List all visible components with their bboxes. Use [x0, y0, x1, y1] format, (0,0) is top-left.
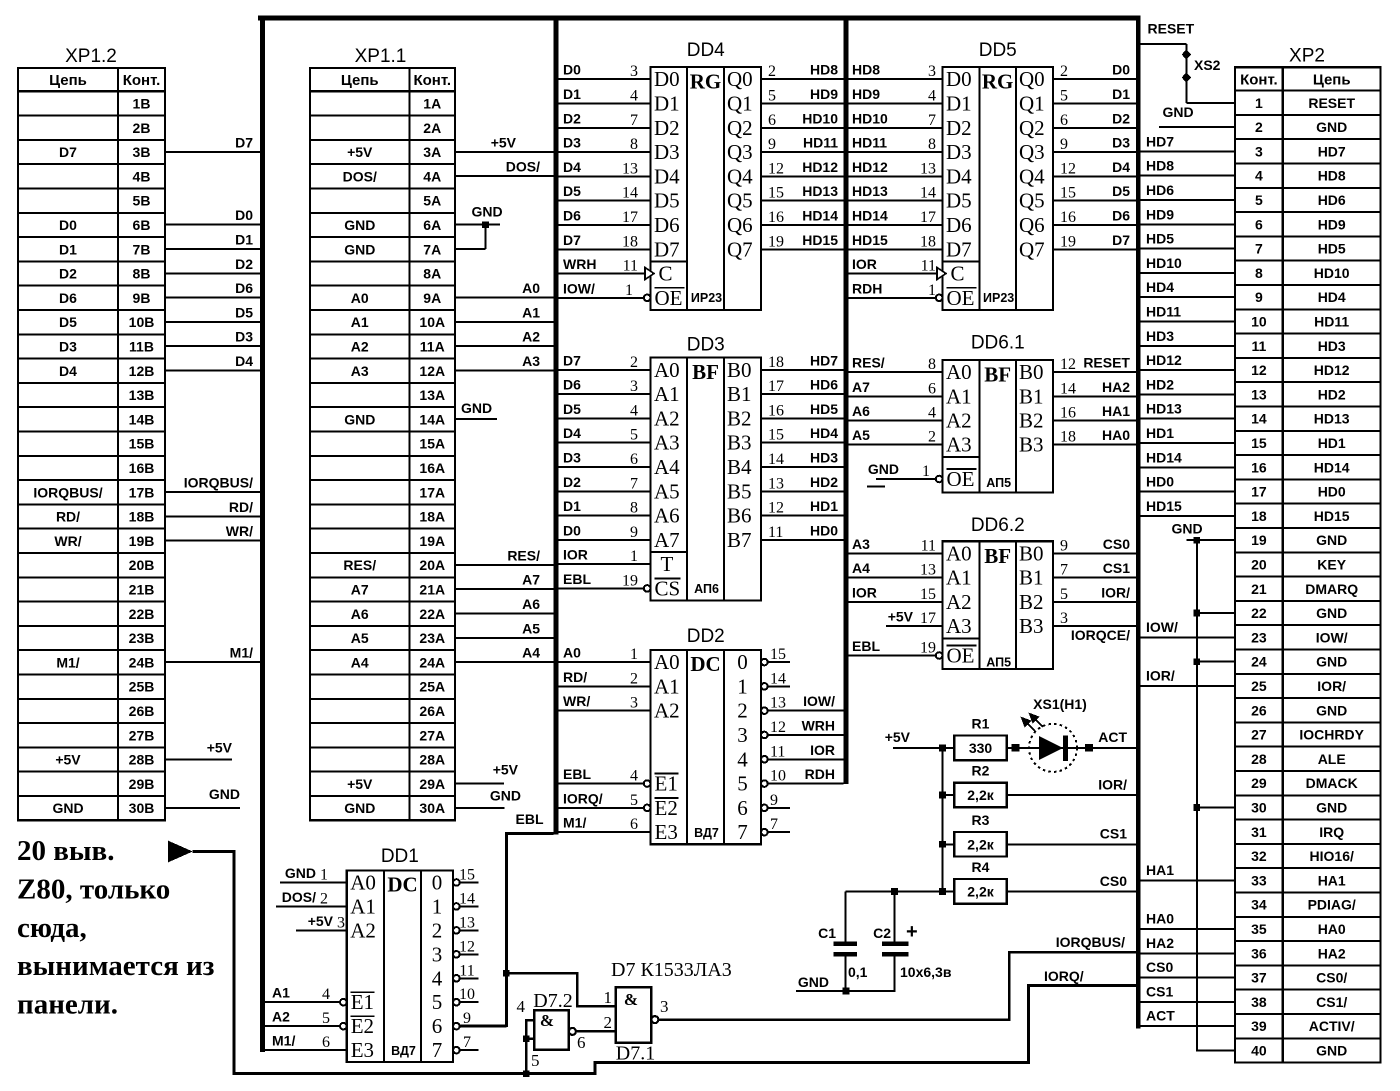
svg-text:5: 5: [1060, 586, 1068, 603]
svg-text:D5: D5: [235, 304, 253, 320]
svg-text:Q2: Q2: [727, 116, 753, 140]
svg-text:A2: A2: [654, 699, 680, 723]
svg-text:23A: 23A: [419, 630, 445, 646]
svg-text:B3: B3: [1019, 614, 1044, 638]
svg-text:5: 5: [630, 427, 638, 444]
svg-text:9: 9: [1060, 136, 1068, 153]
svg-text:15B: 15B: [129, 436, 155, 452]
svg-text:HD11: HD11: [1314, 313, 1349, 329]
svg-text:HD5: HD5: [810, 401, 838, 417]
svg-text:HD5: HD5: [1146, 231, 1174, 247]
svg-text:12: 12: [1251, 362, 1267, 378]
svg-text:6A: 6A: [423, 217, 441, 233]
svg-text:17: 17: [920, 610, 936, 627]
svg-text:HA0: HA0: [1146, 910, 1174, 926]
svg-text:15A: 15A: [419, 436, 445, 452]
svg-text:D0: D0: [654, 67, 680, 91]
svg-text:WR/: WR/: [226, 523, 253, 539]
svg-text:A0: A0: [350, 870, 376, 894]
svg-text:18B: 18B: [129, 509, 155, 525]
svg-text:17: 17: [768, 378, 784, 395]
svg-text:HA1: HA1: [1318, 872, 1346, 888]
svg-text:Q7: Q7: [1019, 237, 1045, 261]
svg-text:D5: D5: [1112, 183, 1130, 199]
svg-text:14B: 14B: [129, 411, 155, 427]
svg-text:RD/: RD/: [56, 509, 80, 525]
svg-text:HD6: HD6: [810, 377, 838, 393]
svg-text:E2: E2: [655, 796, 678, 820]
svg-text:+5V: +5V: [347, 144, 373, 160]
svg-text:A7: A7: [522, 572, 540, 588]
svg-text:D3: D3: [654, 140, 680, 164]
svg-text:5: 5: [432, 990, 443, 1014]
svg-text:3: 3: [928, 63, 936, 80]
svg-text:39: 39: [1251, 1018, 1267, 1034]
svg-text:17B: 17B: [129, 484, 155, 500]
svg-text:9: 9: [630, 524, 638, 541]
svg-text:Q1: Q1: [727, 91, 753, 115]
svg-text:A4: A4: [351, 654, 369, 670]
svg-text:M1/: M1/: [56, 654, 79, 670]
svg-text:14: 14: [770, 670, 786, 687]
svg-text:40: 40: [1251, 1042, 1267, 1058]
svg-text:ВД7: ВД7: [391, 1044, 416, 1058]
svg-text:RD/: RD/: [563, 669, 587, 685]
svg-text:37: 37: [1251, 970, 1267, 986]
svg-text:АП5: АП5: [986, 656, 1011, 670]
svg-text:D5: D5: [654, 189, 680, 213]
svg-text:HD1: HD1: [1146, 425, 1174, 441]
svg-text:D4: D4: [563, 159, 581, 175]
svg-text:2,2к: 2,2к: [967, 836, 994, 852]
svg-text:HD4: HD4: [1318, 289, 1346, 305]
svg-text:27: 27: [1251, 727, 1267, 743]
svg-text:6: 6: [630, 451, 638, 468]
svg-text:1: 1: [630, 646, 638, 663]
svg-text:B1: B1: [727, 382, 752, 406]
svg-text:HD2: HD2: [1146, 376, 1174, 392]
svg-text:A1: A1: [350, 894, 376, 918]
svg-text:CS1/: CS1/: [1316, 994, 1347, 1010]
svg-text:24B: 24B: [129, 654, 155, 670]
svg-text:D4: D4: [563, 425, 581, 441]
svg-text:3: 3: [630, 695, 638, 712]
svg-text:13: 13: [622, 160, 638, 177]
svg-text:3: 3: [432, 942, 443, 966]
svg-text:M1/: M1/: [230, 645, 253, 661]
svg-text:EBL: EBL: [852, 638, 880, 654]
svg-text:D2: D2: [235, 256, 253, 272]
svg-text:26B: 26B: [129, 703, 155, 719]
svg-text:A4: A4: [852, 560, 870, 576]
svg-text:10B: 10B: [129, 314, 155, 330]
svg-text:GND: GND: [209, 786, 240, 802]
svg-text:6B: 6B: [133, 217, 151, 233]
svg-text:15: 15: [459, 866, 475, 883]
svg-text:D4: D4: [59, 363, 77, 379]
svg-text:EBL: EBL: [563, 766, 591, 782]
svg-text:OE: OE: [947, 467, 975, 491]
svg-text:ВД7: ВД7: [694, 826, 719, 840]
svg-text:IORQBUS/: IORQBUS/: [1056, 934, 1125, 950]
svg-text:HD8: HD8: [852, 62, 880, 78]
svg-text:Q6: Q6: [727, 213, 753, 237]
svg-text:3: 3: [630, 378, 638, 395]
svg-text:4: 4: [928, 87, 936, 104]
svg-text:29: 29: [1251, 775, 1267, 791]
svg-text:Q5: Q5: [727, 189, 753, 213]
svg-text:WRH: WRH: [802, 717, 835, 733]
svg-text:5: 5: [737, 772, 748, 796]
svg-text:HD13: HD13: [1146, 401, 1182, 417]
svg-text:11: 11: [1251, 338, 1266, 354]
svg-text:D3: D3: [563, 449, 581, 465]
svg-text:CS: CS: [655, 576, 681, 600]
svg-text:Q0: Q0: [1019, 67, 1045, 91]
svg-text:7: 7: [630, 475, 638, 492]
svg-text:CS0: CS0: [1146, 959, 1173, 975]
svg-text:19: 19: [622, 572, 638, 589]
svg-text:18: 18: [1060, 429, 1076, 446]
svg-text:GND: GND: [52, 800, 83, 816]
svg-text:D7 К1533ЛА3: D7 К1533ЛА3: [611, 959, 732, 981]
svg-text:A0: A0: [654, 358, 680, 382]
svg-text:D0: D0: [563, 62, 581, 78]
svg-text:25A: 25A: [419, 679, 445, 695]
svg-text:2: 2: [432, 918, 443, 942]
svg-text:4: 4: [517, 997, 526, 1016]
svg-text:IOR/: IOR/: [1101, 584, 1130, 600]
svg-text:HD9: HD9: [810, 86, 838, 102]
svg-text:30A: 30A: [419, 800, 445, 816]
svg-text:A5: A5: [654, 479, 680, 503]
svg-text:T: T: [661, 552, 674, 576]
svg-text:B3: B3: [727, 431, 752, 455]
svg-text:DMACK: DMACK: [1306, 775, 1358, 791]
svg-text:D1: D1: [1112, 86, 1130, 102]
svg-text:A4: A4: [522, 645, 540, 661]
svg-text:DMARQ: DMARQ: [1305, 581, 1358, 597]
svg-text:2B: 2B: [133, 120, 151, 136]
svg-text:&: &: [624, 990, 638, 1009]
svg-text:E1: E1: [351, 990, 374, 1014]
svg-text:CS1: CS1: [1103, 560, 1130, 576]
svg-text:Цепь: Цепь: [49, 72, 87, 89]
svg-text:B6: B6: [727, 504, 752, 528]
svg-text:A0: A0: [946, 360, 972, 384]
svg-text:4: 4: [630, 768, 638, 785]
svg-text:+: +: [906, 921, 918, 943]
svg-text:12: 12: [459, 938, 475, 955]
svg-text:3A: 3A: [423, 144, 441, 160]
svg-text:GND: GND: [798, 974, 829, 990]
svg-text:DD6.1: DD6.1: [971, 333, 1025, 354]
svg-text:1: 1: [630, 548, 638, 565]
svg-text:HA2: HA2: [1318, 945, 1346, 961]
svg-text:ACT: ACT: [1146, 1008, 1175, 1024]
svg-text:HD2: HD2: [810, 474, 838, 490]
svg-text:RESET: RESET: [1148, 21, 1195, 37]
svg-text:4: 4: [432, 966, 443, 990]
svg-text:HD0: HD0: [810, 522, 838, 538]
svg-text:D3: D3: [563, 135, 581, 151]
svg-text:R3: R3: [972, 812, 990, 828]
svg-text:DD4: DD4: [687, 40, 725, 61]
svg-text:A0: A0: [654, 650, 680, 674]
svg-text:A3: A3: [946, 614, 972, 638]
svg-text:Цепь: Цепь: [1313, 71, 1351, 88]
svg-text:GND: GND: [344, 411, 375, 427]
svg-text:D1: D1: [59, 241, 77, 257]
svg-text:A3: A3: [351, 363, 369, 379]
svg-text:30B: 30B: [129, 800, 155, 816]
svg-text:B0: B0: [1019, 360, 1044, 384]
svg-text:12: 12: [768, 500, 784, 517]
svg-text:IORQCE/: IORQCE/: [1071, 627, 1130, 643]
svg-text:IOR: IOR: [563, 547, 588, 563]
svg-text:D3: D3: [59, 338, 77, 354]
svg-text:1: 1: [737, 674, 748, 698]
svg-text:A1: A1: [946, 384, 972, 408]
svg-text:18A: 18A: [419, 509, 445, 525]
svg-text:A2: A2: [351, 338, 369, 354]
svg-text:HD9: HD9: [1146, 206, 1174, 222]
svg-text:HD15: HD15: [802, 232, 838, 248]
svg-text:2: 2: [737, 699, 748, 723]
svg-text:CS1: CS1: [1146, 983, 1173, 999]
svg-text:8: 8: [928, 136, 936, 153]
svg-text:13B: 13B: [129, 387, 155, 403]
svg-text:5: 5: [768, 87, 776, 104]
svg-text:Q3: Q3: [1019, 140, 1045, 164]
svg-text:14: 14: [622, 185, 638, 202]
svg-text:+5V: +5V: [55, 752, 81, 768]
svg-text:АП6: АП6: [694, 582, 719, 596]
svg-text:CS0: CS0: [1103, 536, 1130, 552]
svg-text:+5V: +5V: [207, 739, 233, 755]
svg-text:2,2к: 2,2к: [967, 787, 994, 803]
svg-text:IORQ/: IORQ/: [1044, 968, 1084, 984]
svg-text:OE: OE: [655, 286, 683, 310]
svg-text:IOR/: IOR/: [1317, 678, 1346, 694]
svg-text:+5V: +5V: [347, 776, 373, 792]
svg-text:HD1: HD1: [810, 498, 838, 514]
svg-text:2: 2: [768, 63, 776, 80]
svg-text:IORQ/: IORQ/: [563, 790, 603, 806]
svg-text:2: 2: [928, 429, 936, 446]
svg-text:HD8: HD8: [1318, 168, 1346, 184]
svg-text:HD14: HD14: [852, 207, 888, 223]
svg-text:A7: A7: [654, 528, 680, 552]
svg-text:6: 6: [1060, 112, 1068, 129]
svg-text:D4: D4: [654, 164, 680, 188]
svg-text:D6: D6: [563, 377, 581, 393]
svg-text:панели.: панели.: [17, 989, 118, 1021]
svg-text:3: 3: [1060, 610, 1068, 627]
svg-text:BF: BF: [692, 360, 719, 384]
svg-text:6: 6: [322, 1034, 330, 1051]
svg-text:RES/: RES/: [852, 355, 885, 371]
svg-text:IRQ: IRQ: [1319, 824, 1344, 840]
svg-text:2: 2: [1060, 63, 1068, 80]
svg-text:D2: D2: [59, 266, 77, 282]
svg-text:32: 32: [1251, 848, 1267, 864]
svg-text:+5V: +5V: [888, 609, 914, 625]
svg-text:8B: 8B: [133, 266, 151, 282]
svg-text:HD8: HD8: [810, 62, 838, 78]
svg-text:A7: A7: [852, 379, 870, 395]
svg-text:7: 7: [1060, 562, 1068, 579]
svg-text:D0: D0: [59, 217, 77, 233]
svg-text:26A: 26A: [419, 703, 445, 719]
svg-text:HD3: HD3: [810, 449, 838, 465]
svg-text:WRH: WRH: [563, 256, 596, 272]
svg-text:330: 330: [969, 740, 993, 756]
svg-text:HD0: HD0: [1318, 484, 1346, 500]
svg-text:M1/: M1/: [563, 815, 586, 831]
svg-text:21A: 21A: [419, 581, 445, 597]
svg-text:ACTIV/: ACTIV/: [1309, 1018, 1355, 1034]
svg-text:17: 17: [920, 209, 936, 226]
svg-text:1: 1: [928, 282, 936, 299]
svg-text:D5: D5: [563, 183, 581, 199]
svg-text:HD13: HD13: [802, 183, 838, 199]
svg-text:RESET: RESET: [1308, 95, 1355, 111]
svg-text:DD6.2: DD6.2: [971, 515, 1025, 536]
svg-text:+5V: +5V: [491, 134, 517, 150]
svg-text:13: 13: [459, 914, 475, 931]
svg-text:D7.2: D7.2: [533, 990, 572, 1012]
svg-text:BF: BF: [984, 363, 1011, 387]
svg-text:3B: 3B: [133, 144, 151, 160]
svg-text:D7: D7: [59, 144, 77, 160]
svg-text:D6: D6: [59, 290, 77, 306]
svg-text:HD13: HD13: [852, 183, 888, 199]
svg-text:12: 12: [1060, 356, 1076, 373]
svg-text:6: 6: [1255, 216, 1263, 232]
svg-text:GND: GND: [1316, 654, 1347, 670]
svg-text:A0: A0: [563, 645, 581, 661]
svg-text:XS1(H1): XS1(H1): [1033, 696, 1087, 712]
svg-text:C: C: [951, 262, 965, 286]
svg-text:11B: 11B: [129, 338, 154, 354]
svg-text:6: 6: [432, 1014, 443, 1038]
svg-text:9A: 9A: [423, 290, 441, 306]
svg-text:HA2: HA2: [1102, 379, 1130, 395]
svg-text:D0: D0: [1112, 62, 1130, 78]
svg-text:HD12: HD12: [1146, 352, 1182, 368]
svg-text:15: 15: [1251, 435, 1267, 451]
svg-text:GND: GND: [1316, 702, 1347, 718]
svg-text:1: 1: [604, 988, 613, 1007]
svg-text:A3: A3: [852, 536, 870, 552]
svg-text:D7: D7: [563, 232, 581, 248]
svg-text:IOR: IOR: [852, 256, 877, 272]
svg-text:14: 14: [459, 890, 475, 907]
svg-text:OE: OE: [947, 286, 975, 310]
svg-text:19: 19: [1060, 233, 1076, 250]
svg-text:HD10: HD10: [1146, 255, 1182, 271]
svg-text:GND: GND: [344, 217, 375, 233]
svg-text:1: 1: [1255, 95, 1263, 111]
svg-text:IOR/: IOR/: [1098, 777, 1127, 793]
svg-text:E3: E3: [351, 1038, 374, 1062]
svg-text:HD10: HD10: [1314, 265, 1350, 281]
svg-text:ИР23: ИР23: [983, 291, 1014, 305]
svg-text:DD5: DD5: [979, 40, 1017, 61]
svg-text:20 выв.: 20 выв.: [17, 835, 114, 867]
svg-text:17: 17: [622, 209, 638, 226]
svg-text:HD15: HD15: [852, 232, 888, 248]
svg-text:A7: A7: [351, 581, 369, 597]
svg-text:27B: 27B: [129, 727, 155, 743]
svg-text:Q0: Q0: [727, 67, 753, 91]
svg-text:D1: D1: [654, 91, 680, 115]
svg-text:17: 17: [1251, 484, 1267, 500]
svg-text:A6: A6: [522, 596, 540, 612]
svg-text:CS1: CS1: [1100, 826, 1127, 842]
svg-text:CS0/: CS0/: [1316, 970, 1347, 986]
svg-text:28: 28: [1251, 751, 1267, 767]
svg-text:19A: 19A: [419, 533, 445, 549]
svg-text:A5: A5: [522, 620, 540, 636]
svg-text:D2: D2: [1112, 110, 1130, 126]
svg-text:Q2: Q2: [1019, 116, 1045, 140]
svg-text:D5: D5: [59, 314, 77, 330]
svg-text:8: 8: [928, 356, 936, 373]
svg-text:B4: B4: [727, 455, 752, 479]
svg-text:HD5: HD5: [1318, 241, 1346, 257]
svg-text:16: 16: [768, 402, 784, 419]
svg-text:GND: GND: [471, 204, 502, 220]
svg-text:0: 0: [737, 650, 748, 674]
svg-text:M1/: M1/: [272, 1033, 295, 1049]
svg-text:A3: A3: [654, 431, 680, 455]
svg-text:Z80, только: Z80, только: [17, 873, 170, 905]
svg-text:D7: D7: [235, 134, 253, 150]
svg-text:15: 15: [768, 427, 784, 444]
svg-text:8: 8: [630, 136, 638, 153]
svg-text:24A: 24A: [419, 654, 445, 670]
svg-text:5: 5: [531, 1051, 540, 1070]
svg-text:ALE: ALE: [1318, 751, 1346, 767]
svg-text:4B: 4B: [133, 168, 151, 184]
svg-text:A6: A6: [852, 403, 870, 419]
svg-text:D3: D3: [235, 329, 253, 345]
svg-text:13: 13: [1251, 386, 1267, 402]
svg-text:HD0: HD0: [1146, 474, 1174, 490]
svg-text:15: 15: [1060, 185, 1076, 202]
svg-text:7: 7: [432, 1038, 443, 1062]
svg-text:5: 5: [1255, 192, 1263, 208]
svg-text:D3: D3: [1112, 135, 1130, 151]
svg-text:1: 1: [432, 894, 443, 918]
svg-text:A0: A0: [351, 290, 369, 306]
svg-text:A1: A1: [522, 304, 540, 320]
svg-text:15: 15: [770, 646, 786, 663]
svg-text:HD12: HD12: [852, 159, 888, 175]
svg-text:IOCHRDY: IOCHRDY: [1299, 727, 1364, 743]
svg-text:OE: OE: [947, 644, 975, 668]
svg-text:19: 19: [920, 640, 936, 657]
svg-text:10A: 10A: [419, 314, 445, 330]
svg-text:DD3: DD3: [687, 335, 725, 356]
svg-text:HD12: HD12: [1314, 362, 1350, 378]
svg-text:D6: D6: [946, 213, 972, 237]
svg-text:HA0: HA0: [1102, 427, 1130, 443]
svg-text:21: 21: [1251, 581, 1267, 597]
svg-text:DD2: DD2: [687, 626, 725, 647]
